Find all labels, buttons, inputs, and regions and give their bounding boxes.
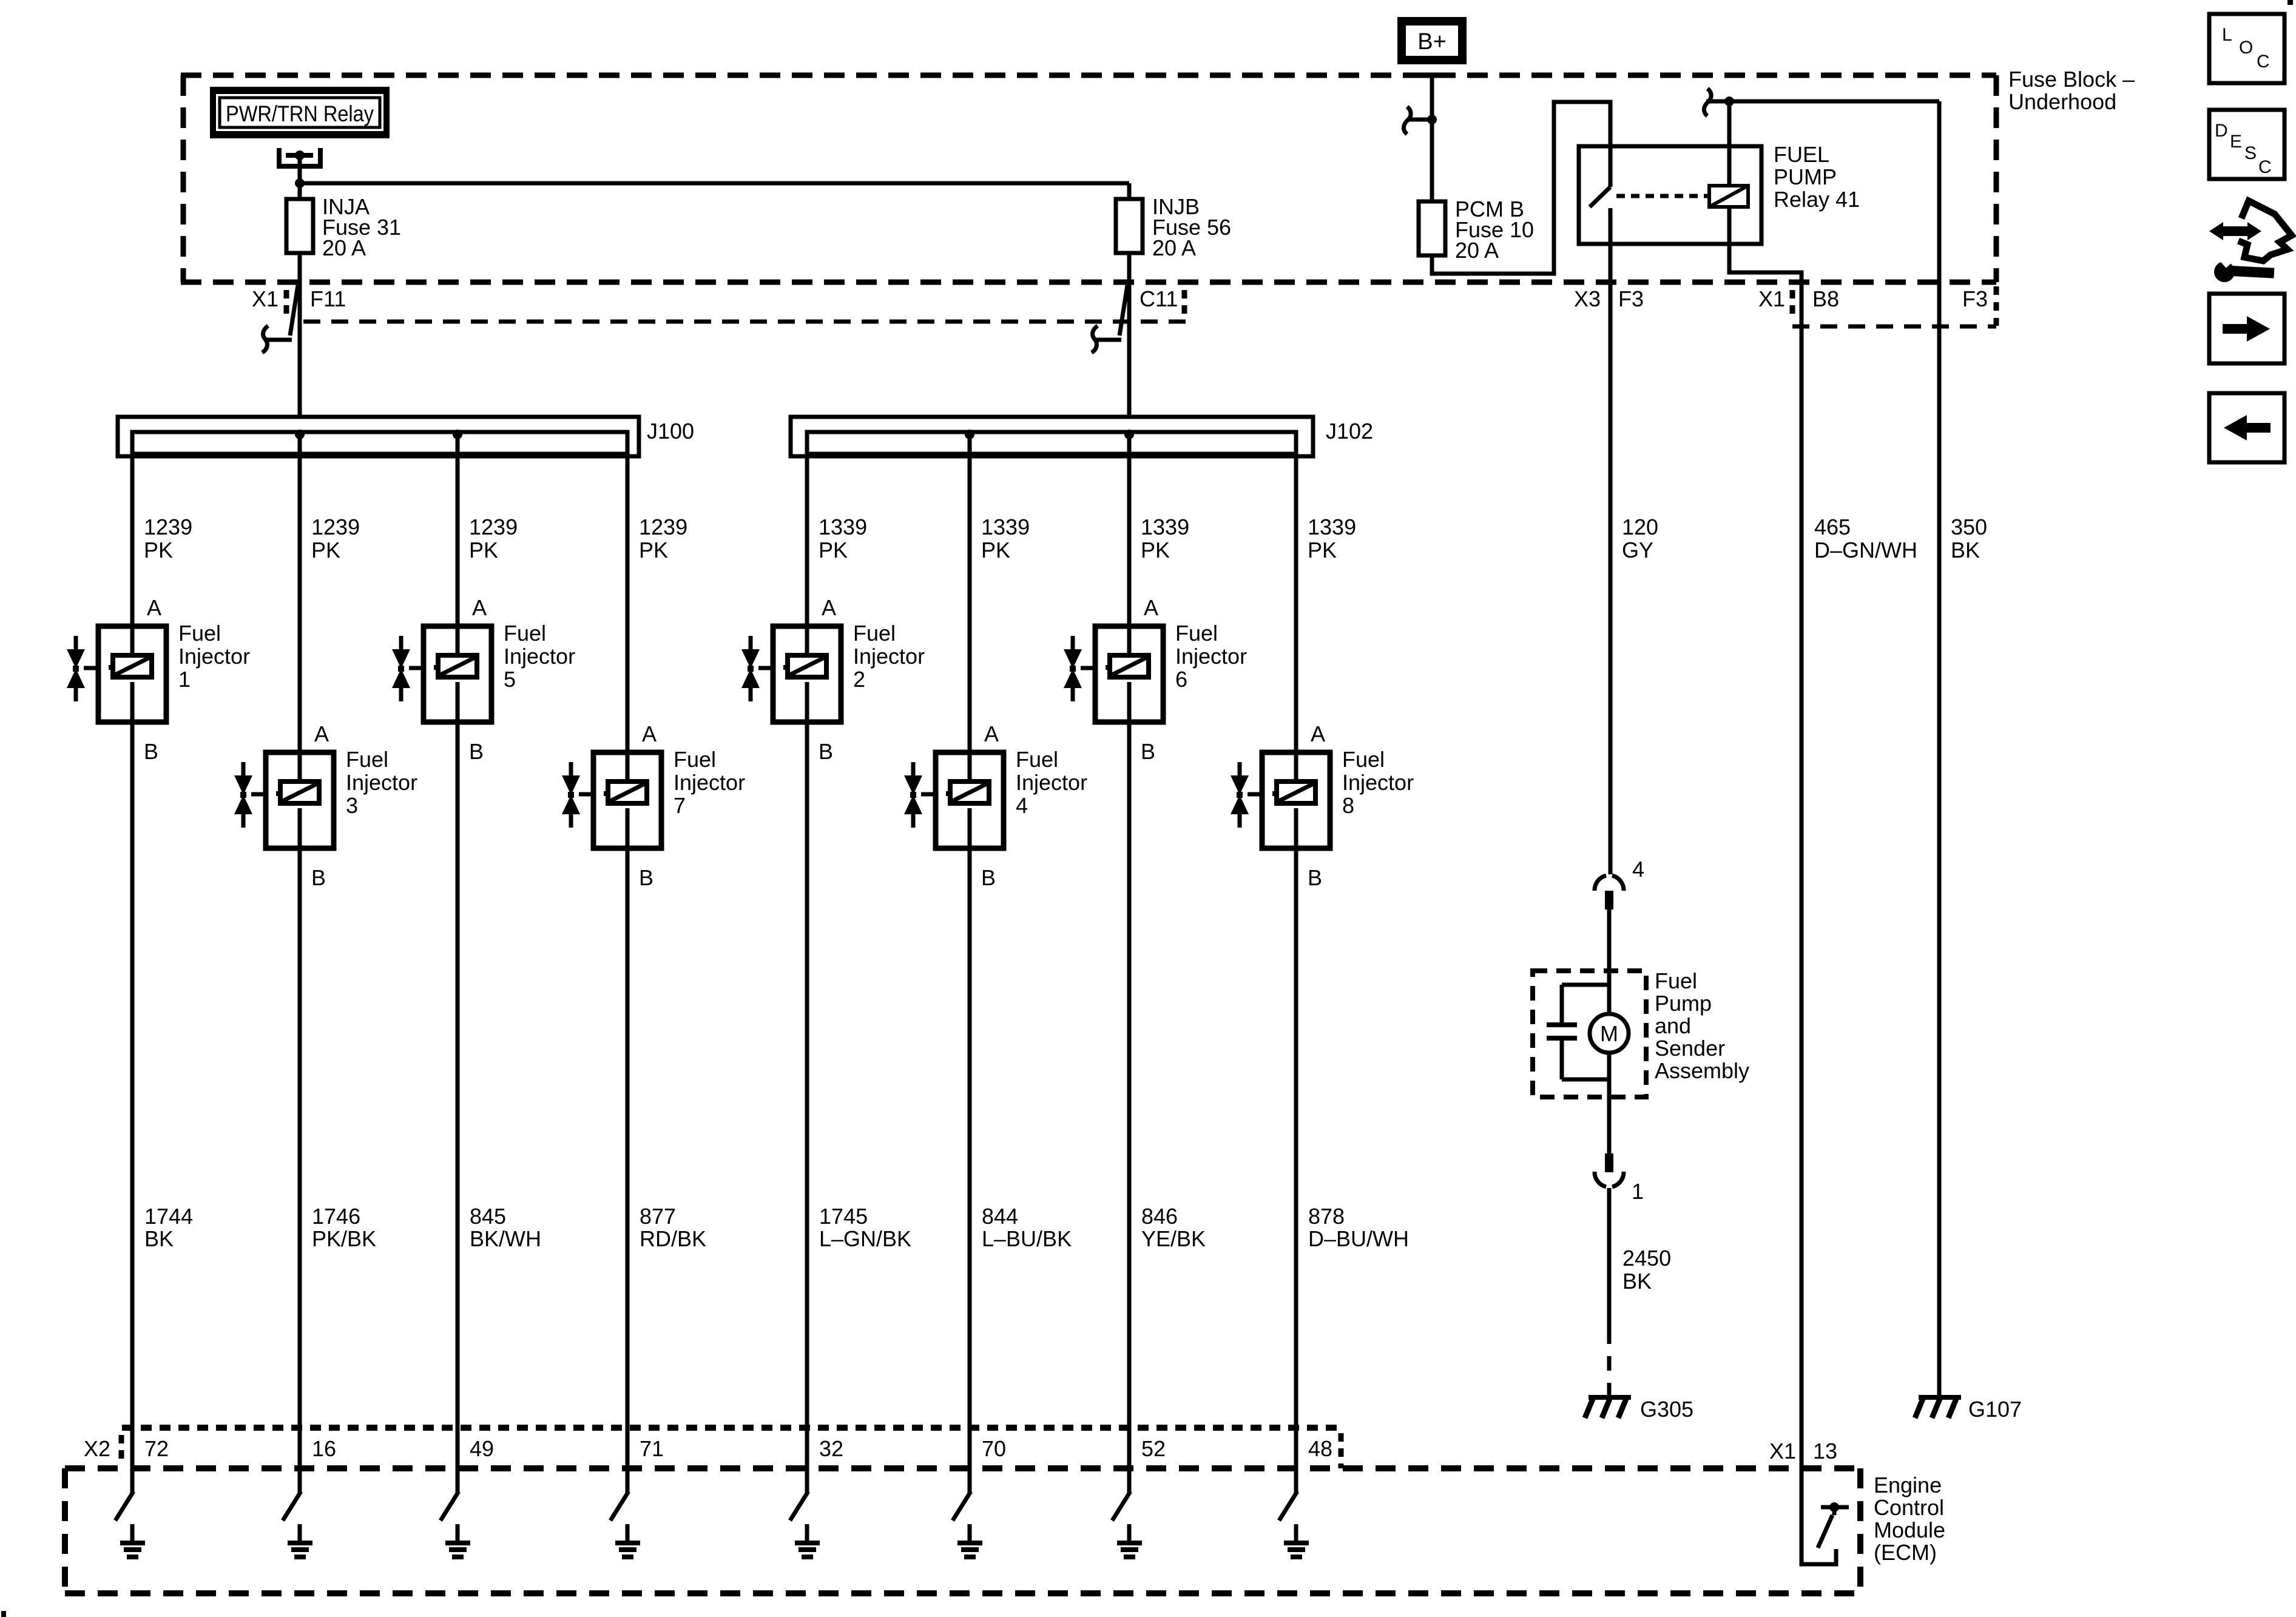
svg-text:PK: PK — [311, 538, 340, 562]
svg-text:350: 350 — [1951, 515, 1987, 539]
svg-text:B: B — [469, 739, 484, 764]
svg-text:Engine: Engine — [1874, 1473, 1942, 1497]
svg-text:Relay 41: Relay 41 — [1774, 187, 1860, 212]
svg-text:B+: B+ — [1417, 29, 1447, 55]
svg-text:RD/BK: RD/BK — [640, 1226, 706, 1251]
svg-text:X3: X3 — [1574, 286, 1601, 311]
svg-text:D–BU/WH: D–BU/WH — [1308, 1226, 1409, 1251]
svg-text:6: 6 — [1175, 667, 1187, 692]
svg-text:X1: X1 — [1769, 1439, 1796, 1463]
svg-text:Module: Module — [1874, 1517, 1945, 1542]
svg-text:PK: PK — [1141, 538, 1170, 562]
svg-text:B: B — [1141, 739, 1155, 764]
svg-text:X1: X1 — [1758, 286, 1785, 311]
svg-text:2: 2 — [853, 667, 865, 692]
svg-text:Injector: Injector — [1342, 770, 1414, 795]
svg-text:16: 16 — [312, 1436, 336, 1461]
svg-text:1339: 1339 — [1141, 515, 1189, 539]
svg-text:C: C — [2257, 52, 2270, 72]
svg-text:1744: 1744 — [144, 1204, 193, 1229]
svg-text:PK: PK — [469, 538, 498, 562]
svg-text:BK: BK — [1622, 1269, 1652, 1294]
svg-text:7: 7 — [674, 793, 686, 818]
svg-text:120: 120 — [1622, 515, 1658, 539]
svg-text:BK: BK — [144, 1226, 174, 1251]
svg-text:465: 465 — [1814, 515, 1851, 539]
svg-text:C11: C11 — [1140, 286, 1178, 311]
svg-text:Fuel: Fuel — [1342, 747, 1385, 772]
svg-text:Injector: Injector — [346, 770, 417, 795]
svg-text:Fuel: Fuel — [1175, 621, 1218, 646]
svg-text:L: L — [2222, 25, 2232, 45]
svg-text:E: E — [2230, 132, 2242, 152]
svg-text:A: A — [314, 721, 329, 746]
svg-text:1: 1 — [1632, 1179, 1644, 1204]
svg-text:PK/BK: PK/BK — [312, 1226, 376, 1251]
svg-text:C: C — [2258, 157, 2272, 177]
svg-text:J100: J100 — [647, 419, 694, 444]
svg-text:F3: F3 — [1962, 286, 1988, 311]
svg-text:B: B — [1308, 865, 1322, 890]
svg-text:1: 1 — [178, 667, 191, 692]
svg-text:Injector: Injector — [504, 644, 575, 669]
svg-text:2450: 2450 — [1622, 1246, 1671, 1271]
svg-text:L–BU/BK: L–BU/BK — [982, 1226, 1072, 1251]
svg-text:A: A — [984, 721, 999, 746]
svg-text:PK: PK — [981, 538, 1010, 562]
svg-text:A: A — [147, 595, 161, 620]
svg-text:PK: PK — [819, 538, 848, 562]
svg-text:Fuse Block –: Fuse Block – — [2008, 67, 2135, 92]
svg-text:Sender: Sender — [1655, 1036, 1725, 1061]
svg-text:877: 877 — [640, 1204, 676, 1229]
svg-text:1339: 1339 — [981, 515, 1030, 539]
svg-text:70: 70 — [982, 1436, 1006, 1461]
svg-text:PWR/TRN Relay: PWR/TRN Relay — [226, 101, 374, 126]
svg-text:A: A — [1311, 721, 1325, 746]
svg-text:1239: 1239 — [639, 515, 687, 539]
svg-text:8: 8 — [1342, 793, 1354, 818]
svg-text:Fuel: Fuel — [346, 747, 388, 772]
svg-text:Fuel: Fuel — [178, 621, 221, 646]
svg-text:BK/WH: BK/WH — [470, 1226, 541, 1251]
svg-text:S: S — [2244, 143, 2257, 163]
svg-text:52: 52 — [1141, 1436, 1166, 1461]
svg-text:20 A: 20 A — [1455, 238, 1499, 263]
svg-text:Underhood: Underhood — [2008, 89, 2116, 114]
svg-text:Injector: Injector — [1016, 770, 1087, 795]
svg-text:and: and — [1655, 1013, 1691, 1038]
svg-text:20 A: 20 A — [1152, 235, 1196, 260]
svg-text:FUEL: FUEL — [1774, 142, 1829, 167]
svg-text:X2: X2 — [84, 1436, 110, 1461]
svg-text:1239: 1239 — [469, 515, 518, 539]
svg-text:O: O — [2239, 38, 2253, 58]
svg-text:844: 844 — [982, 1204, 1018, 1229]
svg-text:Control: Control — [1874, 1495, 1944, 1520]
svg-text:Pump: Pump — [1655, 991, 1712, 1016]
svg-text:PK: PK — [639, 538, 668, 562]
svg-text:G107: G107 — [1968, 1397, 2022, 1422]
svg-text:F3: F3 — [1618, 286, 1644, 311]
svg-text:Fuel: Fuel — [674, 747, 716, 772]
svg-text:Fuel: Fuel — [1016, 747, 1058, 772]
svg-text:5: 5 — [504, 667, 516, 692]
svg-text:Injector: Injector — [178, 644, 250, 669]
svg-text:B8: B8 — [1812, 286, 1839, 311]
svg-text:B: B — [144, 739, 158, 764]
svg-text:M: M — [1600, 1021, 1618, 1046]
svg-text:1239: 1239 — [311, 515, 360, 539]
svg-text:Fuel: Fuel — [1655, 968, 1697, 993]
svg-text:BK: BK — [1951, 538, 1980, 562]
svg-text:A: A — [1144, 595, 1158, 620]
svg-text:B: B — [311, 865, 326, 890]
svg-text:1745: 1745 — [819, 1204, 868, 1229]
svg-text:PK: PK — [144, 538, 173, 562]
svg-text:32: 32 — [819, 1436, 843, 1461]
svg-text:PK: PK — [1308, 538, 1337, 562]
svg-text:1239: 1239 — [144, 515, 192, 539]
svg-text:1339: 1339 — [819, 515, 867, 539]
svg-text:YE/BK: YE/BK — [1141, 1226, 1206, 1251]
svg-text:48: 48 — [1308, 1436, 1332, 1461]
svg-text:F11: F11 — [310, 286, 346, 311]
svg-text:20 A: 20 A — [322, 235, 366, 260]
svg-text:1339: 1339 — [1308, 515, 1356, 539]
svg-text:D: D — [2215, 121, 2228, 141]
svg-text:A: A — [472, 595, 487, 620]
svg-text:Assembly: Assembly — [1655, 1058, 1749, 1083]
svg-text:Injector: Injector — [674, 770, 745, 795]
svg-text:B: B — [819, 739, 833, 764]
svg-text:4: 4 — [1016, 793, 1028, 818]
svg-text:72: 72 — [144, 1436, 169, 1461]
svg-text:3: 3 — [346, 793, 358, 818]
svg-text:(ECM): (ECM) — [1874, 1540, 1937, 1565]
svg-text:846: 846 — [1141, 1204, 1178, 1229]
svg-text:L–GN/BK: L–GN/BK — [819, 1226, 911, 1251]
svg-text:Injector: Injector — [853, 644, 925, 669]
svg-text:D–GN/WH: D–GN/WH — [1814, 538, 1917, 562]
svg-text:Injector: Injector — [1175, 644, 1247, 669]
svg-text:J102: J102 — [1326, 419, 1373, 444]
svg-text:Fuel: Fuel — [504, 621, 546, 646]
svg-text:B: B — [639, 865, 653, 890]
svg-text:A: A — [822, 595, 836, 620]
svg-text:X1: X1 — [252, 286, 279, 311]
svg-text:49: 49 — [470, 1436, 494, 1461]
svg-text:13: 13 — [1813, 1439, 1837, 1463]
svg-text:Fuel: Fuel — [853, 621, 896, 646]
svg-text:71: 71 — [640, 1436, 664, 1461]
svg-text:845: 845 — [470, 1204, 506, 1229]
svg-text:B: B — [981, 865, 996, 890]
svg-text:GY: GY — [1622, 538, 1653, 562]
svg-text:878: 878 — [1308, 1204, 1345, 1229]
svg-text:4: 4 — [1632, 857, 1644, 882]
svg-text:1746: 1746 — [312, 1204, 360, 1229]
svg-text:A: A — [642, 721, 657, 746]
svg-text:G305: G305 — [1640, 1397, 1693, 1422]
svg-text:PUMP: PUMP — [1774, 164, 1837, 189]
